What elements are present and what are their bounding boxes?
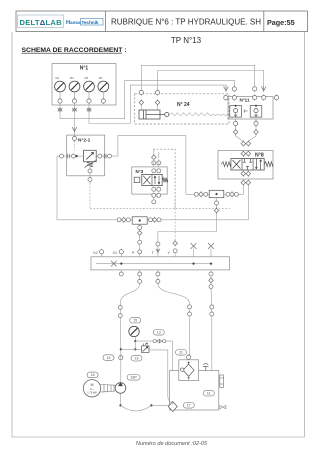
svg-text:N°8: N°8 — [255, 153, 264, 159]
svg-text:15: 15 — [133, 318, 137, 322]
wire M1 to N°11 — [60, 80, 234, 118]
svg-text:M3: M3 — [85, 76, 89, 80]
manometer M1 coupling — [58, 98, 62, 104]
svg-text:31: 31 — [179, 351, 183, 355]
N°11 check valve 1 body — [230, 106, 242, 118]
relief valve 19 arrow — [143, 347, 148, 352]
N°2-1 junction dot — [76, 155, 78, 157]
svg-text:P: P — [132, 251, 135, 255]
svg-text:T: T — [152, 251, 155, 255]
label 18P — [127, 375, 140, 381]
label 15 — [130, 317, 141, 323]
relief valve adjust arrow — [85, 161, 96, 168]
filter 31 diamond — [183, 364, 194, 376]
DELTALAB logo box — [18, 15, 64, 28]
manifold junction plug1 — [192, 263, 194, 265]
N°11 check valve 2 dot — [255, 105, 257, 107]
manometer M4 — [98, 81, 109, 92]
N°24 port A diamond — [139, 99, 144, 105]
manometer M1 stem — [59, 92, 61, 99]
header divider 1 — [105, 11, 107, 32]
svg-text:N°3: N°3 — [136, 169, 144, 174]
svg-text:11: 11 — [207, 391, 211, 395]
svg-text:TP N°13: TP N°13 — [171, 36, 202, 45]
flow control FC1 bottom branch — [214, 198, 219, 232]
Hansa logo box — [81, 19, 104, 26]
svg-text:13: 13 — [157, 331, 161, 335]
N°24 port B stem — [157, 105, 159, 111]
header divider 2 — [263, 11, 265, 32]
cylinder N°24 piston — [144, 110, 147, 119]
label 14 — [103, 355, 114, 361]
N°3 top coupling pair — [152, 159, 161, 167]
N°2-1 dashed box — [67, 135, 105, 176]
N°24 port B coupling — [155, 89, 159, 95]
N°2-1 left coupling marks — [68, 154, 70, 159]
wire N°24 B up-over to N°11 — [158, 71, 264, 91]
svg-text:14: 14 — [107, 356, 111, 360]
svg-text:DELTΔLAB: DELTΔLAB — [20, 18, 63, 27]
N°8 coupling pair row1 — [241, 141, 251, 147]
relief outlet — [149, 350, 173, 403]
N°11 port couplings row — [224, 95, 266, 101]
svg-text:RUBRIQUE N°6 : TP HYDRAULIQUE: RUBRIQUE N°6 : TP HYDRAULIQUE. SH — [111, 18, 261, 27]
manometer M1 — [55, 81, 66, 92]
port T couplings — [156, 242, 160, 257]
N°2-1 left inner circle — [72, 154, 76, 158]
shutoff to tank drop — [172, 341, 174, 370]
N°11 circle coupling b — [253, 86, 257, 92]
wire M2 down to N°2-1 — [74, 113, 76, 126]
tank body — [170, 371, 219, 411]
port X1 coupling — [119, 249, 123, 255]
wire N°2-1 left down — [57, 156, 117, 220]
N°2-1 drain dashed wire — [89, 183, 91, 208]
wire into N°2-1 — [74, 132, 76, 135]
svg-text:Page:55: Page:55 — [267, 18, 295, 27]
junction relief b — [134, 348, 136, 350]
gauge 15 stem — [134, 337, 136, 341]
N°8 valve body — [231, 159, 264, 171]
N°3 drain dashed to Y — [174, 192, 176, 241]
tank top return line — [211, 304, 213, 371]
below-bar T couplings — [156, 270, 160, 284]
flow control FC2 right couplings — [147, 217, 248, 223]
footer line — [12, 436, 305, 438]
svg-text:Y: Y — [168, 251, 171, 255]
N°2-1 right inner circle — [98, 154, 102, 158]
breather — [203, 364, 209, 371]
N°8 B line down — [247, 185, 249, 220]
manometer block N°1 box — [52, 64, 116, 106]
N°3 box — [132, 167, 167, 194]
wire M3 to N°11 — [89, 85, 226, 123]
manifold internal line — [96, 263, 211, 265]
N°8 coupling pair row2 — [241, 151, 251, 157]
N°24 port A coupling — [139, 89, 143, 95]
svg-text:19: 19 — [135, 356, 139, 360]
label 13 — [153, 330, 164, 336]
N°11 below couplings 2 — [254, 119, 259, 137]
N°8 valve squares — [242, 159, 253, 171]
filter 31 top coupling — [187, 354, 191, 360]
strainer 12 diamond — [168, 402, 177, 412]
pump 18P arrow — [118, 383, 122, 386]
N°3 feed diamond — [152, 154, 157, 160]
N°3 below coupling pair — [152, 193, 161, 197]
svg-text:1.75 kW: 1.75 kW — [87, 391, 97, 395]
N°11 right coupling — [274, 95, 278, 101]
manometer M3 — [84, 81, 95, 92]
test point below M3 — [87, 103, 91, 113]
strainer line — [172, 402, 174, 406]
below-bar P couplings — [138, 270, 142, 284]
manifold bar — [91, 257, 230, 270]
suction hose arc — [121, 405, 152, 411]
svg-text:17: 17 — [187, 404, 191, 408]
N°11 below couplings 1 — [233, 119, 238, 137]
junction gauge — [134, 340, 136, 342]
N°3 spring — [162, 178, 168, 183]
plug port 2 — [208, 243, 214, 257]
flow control FC1 left couplings — [186, 191, 209, 197]
N°11 check valve 2 element — [254, 109, 258, 117]
port X2 stem — [101, 254, 103, 257]
pump pressure line lower — [120, 350, 122, 383]
flow control FC2 body — [132, 217, 147, 224]
manometer M2 — [69, 81, 80, 92]
N°8 coupling pair row3 — [241, 171, 251, 177]
svg-text:SCHEMA DE RACCORDEMENT :: SCHEMA DE RACCORDEMENT : — [22, 47, 127, 54]
N°11 merge diagonals — [236, 136, 256, 141]
test point below M2 — [72, 103, 76, 113]
suction junction a — [119, 404, 121, 406]
coupling 14 — [119, 355, 123, 361]
filter 31 bypass circle — [181, 368, 184, 371]
N°8 A line down — [242, 185, 244, 194]
filter 31 diamond dots — [188, 362, 190, 364]
label 19 — [131, 355, 142, 361]
N°8 valve right arrows — [255, 159, 261, 171]
N°11 circle coupling a — [232, 86, 236, 92]
pump suction line — [120, 393, 122, 405]
check symbol above N°2-1 — [72, 127, 77, 133]
junction relief a — [120, 348, 122, 350]
pump pressure line couplings — [118, 303, 122, 350]
N°3 valve body — [142, 174, 162, 185]
svg-text:N° 24: N° 24 — [177, 102, 190, 108]
N°3 dashed box edges — [153, 149, 175, 208]
filter 31 internal line — [188, 376, 190, 380]
port X2 coupling — [100, 249, 104, 255]
return line couplings — [188, 304, 192, 355]
N°8 spring left — [222, 162, 231, 167]
header table box — [16, 11, 308, 32]
flow control FC2 bottom branch — [137, 224, 142, 241]
svg-text:X1: X1 — [113, 251, 118, 255]
wire T-line — [158, 232, 217, 242]
N°11 cross-link — [244, 110, 248, 113]
port Y couplings — [173, 240, 178, 257]
relief valve V2 arrow — [86, 152, 93, 159]
port P couplings — [138, 235, 142, 257]
N°11 arrow coupling left — [224, 86, 229, 92]
label 11 — [203, 390, 214, 396]
N°8 valve center symbols — [243, 159, 252, 171]
test point below M1 — [58, 103, 62, 113]
N°3 feed lines — [154, 149, 159, 158]
N°11 box — [228, 97, 273, 119]
level gauge — [220, 375, 224, 387]
shutoff valve 13 — [153, 340, 166, 343]
tank top return couplings — [210, 305, 214, 316]
port X1 stem — [120, 254, 122, 257]
svg-text:M2: M2 — [70, 76, 74, 80]
svg-text:N°1: N°1 — [80, 66, 89, 72]
N°3 valve divider — [151, 174, 153, 185]
page right border — [304, 32, 306, 437]
N°3 solenoid — [134, 177, 140, 182]
cylinder N°24 rod end — [165, 112, 169, 116]
svg-text:M1: M1 — [56, 76, 60, 80]
below-bar R couplings — [209, 270, 214, 289]
N°8 spring right — [264, 162, 273, 167]
N°24 port A stem — [140, 105, 142, 111]
tank drain valve — [220, 405, 226, 409]
N°11 check valve 2 body — [250, 106, 262, 118]
cylinder N°24 body — [139, 110, 160, 119]
drain dashed horizontal — [90, 207, 230, 209]
svg-text:N°2-1: N°2-1 — [78, 138, 91, 144]
suction to strainer — [151, 404, 169, 406]
N°2-1 right coupling circle — [108, 154, 112, 158]
gauge-relief link — [134, 341, 136, 349]
motor M circle — [83, 380, 100, 397]
N°3 below single coupling — [152, 200, 156, 204]
hose R to tank — [210, 289, 213, 305]
below-bar X1 coupling — [119, 270, 123, 276]
label 17 — [183, 403, 194, 409]
manometer M2 stem — [74, 92, 76, 99]
label 31 — [176, 350, 187, 356]
N°8 box — [218, 151, 273, 180]
N°3 bottom coupling pair — [152, 186, 161, 199]
N°24 dashed box — [135, 94, 229, 124]
plug port 1 — [191, 243, 197, 257]
flow control FC1 right couplings — [224, 191, 244, 197]
page left border — [11, 32, 13, 437]
flow control FC1 dot — [215, 193, 217, 195]
N°11 check valve 1 element — [234, 109, 238, 117]
N°3 valve X — [143, 176, 150, 184]
flow control FC1 body — [209, 190, 224, 197]
manometer M4 stem — [102, 92, 104, 99]
N°2-1 drain couplings — [88, 162, 92, 183]
N°2-1 left coupling circle — [60, 154, 64, 158]
relief valve V2 body — [84, 150, 97, 161]
N°2-1 right coupling marks — [104, 154, 106, 159]
flow control FC2 left couplings — [117, 217, 132, 223]
shutoff valve 13 line — [135, 340, 172, 342]
hose P to pump line — [120, 284, 139, 304]
svg-text:M4: M4 — [99, 76, 103, 80]
svg-text:18P: 18P — [130, 376, 137, 380]
manometer M3 coupling — [87, 98, 91, 104]
svg-text:N°11: N°11 — [240, 97, 250, 102]
N°3 valve arrows — [154, 176, 160, 184]
manifold internal plug — [111, 261, 117, 267]
svg-text:16: 16 — [91, 373, 95, 377]
relief valve 19 body — [142, 346, 150, 353]
label 16 — [87, 372, 98, 378]
N°8 coupling pair row4 — [241, 180, 251, 186]
manometer M4 coupling — [101, 98, 105, 104]
N°2-1 top coupling — [72, 135, 76, 141]
coupling bell — [100, 384, 115, 392]
filter 31 box — [179, 360, 199, 381]
wire N°24 A up-over to N°11 — [141, 65, 254, 90]
manifold junction X1 — [120, 263, 122, 265]
pump 18P circle — [115, 383, 126, 394]
N°24 port B diamond — [155, 99, 160, 105]
relief feed line — [121, 348, 142, 350]
suction junction b — [150, 404, 152, 406]
cylinder N°24 rod — [146, 114, 165, 116]
manometer M2 coupling — [72, 98, 76, 104]
cylinder N°24 spring — [170, 113, 231, 116]
svg-text:Numéro de document :02-05: Numéro de document :02-05 — [136, 441, 208, 447]
flow control FC2 dot — [139, 219, 141, 221]
schema heading underline — [22, 52, 123, 54]
relief valve V2 spring — [87, 162, 93, 167]
manifold junction plug2 — [210, 263, 212, 265]
N°3 inner coupling pair — [152, 169, 161, 173]
N°11 check valve 1 dot — [235, 105, 237, 107]
N°8 valve X — [233, 160, 241, 169]
svg-text:X2: X2 — [93, 251, 98, 255]
N°2-1 pilot dashes — [74, 141, 76, 150]
N°11 arrow coupling right — [261, 86, 266, 92]
relief valve 19 pilot — [144, 343, 148, 346]
hose T to filter line — [158, 284, 190, 305]
N°2-1 left wire — [57, 155, 84, 157]
pressure gauge 15 — [129, 326, 139, 336]
wire P1 riser — [118, 136, 186, 195]
manometer M3 stem — [88, 92, 90, 99]
N°2-1 right wire — [96, 155, 118, 157]
svg-text:3 ~: 3 ~ — [90, 387, 95, 391]
